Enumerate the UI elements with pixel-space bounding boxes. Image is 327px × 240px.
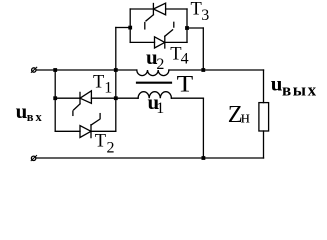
svg-text:4: 4 (181, 50, 189, 67)
svg-text:u: u (16, 99, 28, 123)
svg-text:3: 3 (201, 7, 209, 24)
svg-text:вых: вых (282, 81, 318, 100)
svg-text:T: T (93, 72, 104, 92)
svg-text:u: u (271, 72, 283, 96)
svg-text:T: T (191, 0, 202, 20)
svg-text:1: 1 (156, 100, 164, 117)
svg-text:2: 2 (156, 56, 164, 73)
svg-text:T: T (95, 132, 106, 152)
svg-text:1: 1 (104, 80, 112, 97)
svg-text:2: 2 (107, 139, 115, 156)
svg-text:вх: вх (27, 110, 44, 124)
svg-text:T: T (177, 72, 194, 97)
svg-text:н: н (241, 108, 250, 127)
